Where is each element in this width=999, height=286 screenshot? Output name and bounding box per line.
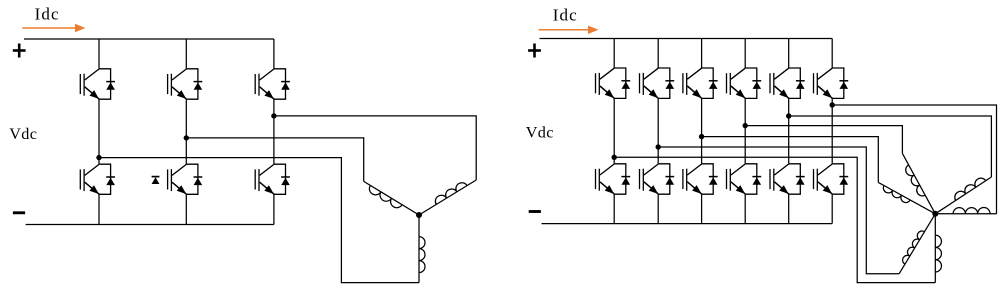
inductor phase 1 winding (right): [935, 214, 941, 283]
node neutral star point (left): [416, 212, 422, 218]
IGBT T12 bottom leg 6 with freewheeling diode (right): [814, 164, 849, 194]
label Vdc (right): [526, 124, 554, 142]
node A junction dot (left): [96, 155, 101, 160]
wire -dc rail (right): [542, 223, 833, 225]
dc bus - terminal (left): [13, 211, 25, 214]
current arrow Idc (left): [22, 24, 85, 32]
wire leg 2 midpoint (right): [657, 98, 659, 163]
inductor phase C winding (left): [419, 180, 476, 215]
svg-text:Vdc: Vdc: [9, 125, 37, 143]
wire leg C collector (left): [273, 39, 275, 69]
dc bus + terminal (left): [13, 44, 26, 58]
IGBT T11 bottom leg 5 with freewheeling diode (right): [770, 164, 805, 194]
wire leg 1 emitter to -rail (right): [613, 194, 615, 223]
inductor phase 2 winding (right): [899, 214, 935, 274]
IGBT S5 bottom leg B with freewheeling diode (left): [168, 164, 203, 194]
wire leg C emitter to -rail (left): [273, 194, 275, 224]
node neutral star point (right): [932, 211, 938, 217]
dc bus - terminal (right): [529, 210, 541, 213]
inductor phase 3 winding (right): [878, 182, 935, 213]
IGBT T3 top leg 3 with freewheeling diode (right): [683, 68, 718, 98]
IGBT T6 top leg 6 with freewheeling diode (right): [814, 68, 849, 98]
wire leg 2 collector (right): [657, 39, 659, 69]
wire phase 1 to winding (right): [614, 157, 935, 282]
wire leg 5 midpoint (right): [788, 98, 790, 163]
IGBT S6 bottom leg C with freewheeling diode (left): [255, 164, 290, 194]
wire -dc rail (left): [26, 224, 274, 226]
IGBT T1 top leg 1 with freewheeling diode (right): [596, 68, 631, 98]
svg-text:Vdc: Vdc: [526, 124, 554, 142]
wire leg 2 emitter to -rail (right): [657, 194, 659, 223]
IGBT S1 top leg A with freewheeling diode (left): [80, 69, 115, 99]
wire phase B to winding (left): [186, 138, 363, 182]
node phase 4 junction dot (right): [743, 123, 748, 128]
wire leg 3 collector (right): [701, 39, 703, 69]
node phase 5 junction dot (right): [786, 113, 791, 118]
IGBT T5 top leg 5 with freewheeling diode (right): [770, 68, 805, 98]
wire leg A emitter to -rail (left): [98, 194, 100, 224]
wire +dc rail (left): [24, 38, 274, 40]
node phase 3 junction dot (right): [699, 134, 704, 139]
wire leg B collector (left): [185, 39, 187, 69]
wire leg B midpoint (left): [185, 99, 187, 164]
node phase 1 junction dot (right): [612, 155, 617, 160]
IGBT S4 bottom leg A with freewheeling diode (left): [80, 164, 115, 194]
wire leg 1 midpoint (right): [613, 98, 615, 163]
inductor phase B winding (left): [364, 181, 419, 215]
wire phase 2 to winding (right): [658, 147, 899, 274]
wire leg 6 emitter to -rail (right): [831, 194, 833, 223]
wire phase 3 to winding (right): [702, 137, 879, 183]
IGBT T9 bottom leg 3 with freewheeling diode (right): [683, 164, 718, 194]
IGBT S3 top leg C with freewheeling diode (left): [255, 69, 290, 99]
wire leg 6 collector (right): [831, 39, 833, 69]
wire phase 4 to winding (right): [745, 126, 902, 154]
IGBT T4 top leg 4 with freewheeling diode (right): [727, 68, 762, 98]
wire leg B emitter to -rail (left): [185, 194, 187, 224]
wire leg 4 collector (right): [744, 39, 746, 69]
node B junction dot (left): [184, 135, 189, 140]
IGBT T8 bottom leg 2 with freewheeling diode (right): [640, 164, 675, 194]
node phase 6 junction dot (right): [830, 102, 835, 107]
wire leg 6 midpoint (right): [831, 98, 833, 163]
wire leg C midpoint (left): [273, 99, 275, 164]
node C junction dot (left): [271, 113, 276, 118]
wire leg 3 emitter to -rail (right): [701, 194, 703, 223]
IGBT T7 bottom leg 1 with freewheeling diode (right): [596, 164, 631, 194]
IGBT T2 top leg 2 with freewheeling diode (right): [640, 68, 675, 98]
wire leg A midpoint (left): [98, 99, 100, 164]
wire leg 5 emitter to -rail (right): [788, 194, 790, 223]
inductor phase 4 winding (right): [902, 153, 935, 213]
wire leg A collector (left): [98, 39, 100, 69]
wire leg 4 midpoint (right): [744, 98, 746, 163]
current arrow Idc (right): [539, 26, 599, 34]
svg-text:Idc: Idc: [35, 5, 60, 24]
label Idc (right): [553, 5, 578, 24]
wire leg 1 collector (right): [613, 39, 615, 69]
node phase 2 junction dot (right): [656, 144, 661, 149]
svg-text:Idc: Idc: [553, 5, 578, 24]
wire phase C to winding (left): [274, 116, 476, 180]
IGBT S2 top leg B with freewheeling diode (left): [168, 69, 203, 99]
wire leg 5 collector (right): [788, 39, 790, 69]
wire leg 4 emitter to -rail (right): [744, 194, 746, 223]
inductor phase 6 winding (right): [935, 208, 996, 214]
diode glyph (floating, left bottom row): [152, 177, 160, 184]
label Idc (left): [35, 5, 60, 24]
wire phase 5 to winding (right): [789, 116, 992, 177]
wire +dc rail (right): [540, 38, 833, 40]
inductor phase 5 winding (right): [935, 177, 991, 214]
wire phase 6 to winding (right): [832, 105, 996, 214]
wire phase A to winding (left): [99, 158, 419, 283]
inductor phase A winding (left): [419, 215, 425, 283]
label Vdc (left): [9, 125, 37, 143]
dc bus + terminal (right): [528, 44, 541, 58]
IGBT T10 bottom leg 4 with freewheeling diode (right): [727, 164, 762, 194]
wire leg 3 midpoint (right): [701, 98, 703, 163]
